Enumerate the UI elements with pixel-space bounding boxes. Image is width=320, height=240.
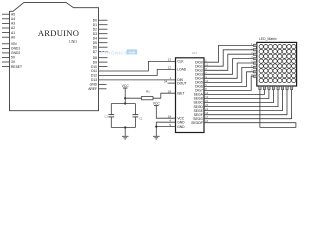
wire capacitor bottom rail [111,127,135,129]
svg-text:AREF: AREF [88,87,97,91]
svg-text:R1: R1 [146,89,150,93]
svg-text:D8: D8 [93,56,97,60]
Arduino pin A3 [2,22,10,24]
svg-text:VIN: VIN [11,42,17,46]
node junction GND pins [155,126,157,128]
wire IC GND pin 9 [156,126,175,128]
Arduino pin A4 [2,18,10,20]
Arduino pin GND2 [2,52,10,54]
LED_Matrix column pin pad 2 [263,86,265,89]
wire IC1 DIG2 to LED_Matrix row pin 3 [204,54,253,70]
Arduino pin D8 [99,57,108,59]
node junction VCC/R1 [124,97,126,99]
LED_Matrix row pin pad 2 [253,49,256,51]
LED_Matrix column pin pad 5 [277,86,279,89]
svg-text:GND: GND [90,83,98,87]
wire IC1 DIG4 to LED_Matrix row pin 5 [204,63,253,78]
LED_Matrix column pin pad 7 [286,86,288,89]
svg-text:D3: D3 [93,32,97,36]
svg-text:12: 12 [168,66,172,70]
LED_Matrix row pin pad 6 [253,66,256,68]
svg-text:D10: D10 [91,65,97,69]
svg-text:24: 24 [164,80,168,84]
wire capacitor top rail [111,103,135,105]
wire D11 to IC CLK pin 13 [99,61,176,71]
wire IC1 DIG5 to LED_Matrix row pin 6 [204,67,253,82]
Arduino pin AREF [99,88,107,90]
Arduino pin D1 [99,24,108,26]
Arduino pin D2 [99,28,108,30]
Arduino pin D4 [99,37,108,39]
svg-text:CLK: CLK [177,60,184,64]
Arduino pin 5V [2,57,10,59]
Arduino pin A5 [2,13,10,15]
wire IC1 DIG1 to LED_Matrix row pin 2 [204,50,253,66]
wire IC GND pin 4 [156,122,175,136]
svg-text:13: 13 [168,58,172,62]
svg-text:A4: A4 [11,17,15,21]
ground symbol (capacitors) [124,128,126,137]
Arduino pin A2 [2,27,10,29]
svg-text:VCC: VCC [122,84,130,88]
wire IC1 SEGF to LED_Matrix column pin 7 [204,89,287,114]
Arduino UNO board outline [10,2,99,110]
wire D12 to IC LOAD pin 12 [99,69,176,75]
Arduino pin A1 [2,32,10,34]
LED_Matrix row pin pad 4 [253,58,256,60]
capacitor C2 [134,104,136,115]
Arduino pin 3V [2,61,10,63]
wire VCC to R1 [125,97,141,99]
svg-text:LED_Matrix: LED_Matrix [259,37,277,41]
wire IC1 DIG0 to LED_Matrix row pin 1 [204,45,253,62]
wire IC1 SEGA to LED_Matrix column pin 2 [204,89,264,94]
wire VCC to IC pin 19 [156,106,175,119]
svg-text:SEGDP: SEGDP [191,121,203,125]
svg-text:ISET: ISET [177,91,184,95]
op IC1 MAX7219 body [176,58,205,133]
svg-text:D4: D4 [93,36,97,40]
Arduino pin GND1 [2,47,10,49]
resistor R1 [142,97,154,100]
wire IC1 SEGB to LED_Matrix column pin 3 [204,89,269,98]
Arduino pin D5 [99,42,108,44]
wire IC1 SEGE to LED_Matrix column pin 6 [204,89,283,110]
wire R1 to IC ISET pin 18 [153,93,176,98]
svg-text:CTRONICS: CTRONICS [100,51,128,57]
node junction capacitor rail bottom [124,126,126,128]
svg-text:A2: A2 [11,26,15,30]
svg-text:D0: D0 [93,18,97,22]
LED matrix LED_Matrix body [257,42,297,86]
svg-text:RESET: RESET [11,65,22,69]
Arduino pin VIN [2,43,10,45]
svg-text:D2: D2 [93,27,97,31]
capacitor C1 [110,104,112,115]
svg-text:VCC: VCC [153,102,161,106]
svg-text:LOAD: LOAD [177,68,187,72]
svg-text:D5: D5 [93,41,97,45]
svg-text:D11: D11 [91,69,97,73]
Arduino pin RESET [2,66,10,68]
wire IC1 SEGC to LED_Matrix column pin 4 [204,89,274,102]
wire IC1 SEGG to LED_Matrix column pin 8 [204,89,292,118]
LED_Matrix row pin pad 7 [253,71,256,73]
svg-text:HUB: HUB [128,50,135,54]
svg-text:GND: GND [177,120,185,124]
LED_Matrix column pin pad 1 [259,86,261,89]
LED_Matrix column pin pad 4 [272,86,274,89]
watermark hub icon [127,49,138,54]
svg-text:D1: D1 [93,23,97,27]
svg-text:UNO: UNO [69,40,77,44]
svg-text:D7: D7 [93,50,97,54]
svg-text:GND1: GND1 [11,47,20,51]
svg-text:D9: D9 [93,60,97,64]
svg-text:D12: D12 [91,74,97,78]
svg-text:D6: D6 [93,45,97,49]
svg-text:GND: GND [177,125,185,129]
Arduino pin D3 [99,33,108,35]
svg-text:C1: C1 [105,115,109,119]
LED_Matrix row pin pad 3 [253,53,256,55]
svg-text:GND2: GND2 [11,51,20,55]
svg-text:D13: D13 [91,78,97,82]
wire IC1 DIG7 to LED_Matrix row pin 8 [204,76,253,90]
LED matrix 8x8 LEDs [259,44,296,82]
Arduino pin D0 [99,19,108,21]
svg-text:ARDUINO: ARDUINO [38,28,79,38]
wire D13 to IC DIN pin 1 [99,79,176,81]
ground symbol (IC) [153,135,160,137]
wire IC1 SEGDP to LED_Matrix column pin 1 [204,89,296,127]
LED_Matrix column pin pad 3 [268,86,270,89]
Arduino pin GND [99,83,107,85]
LED_Matrix row pin pad 8 [253,75,256,77]
svg-text:A0: A0 [11,35,15,39]
node junction capacitor rail top [124,102,126,104]
LED_Matrix column pin pad 8 [291,86,293,89]
IC1 pin 24 DOUT stub [168,82,176,84]
Arduino pin D7 [99,51,108,53]
LED_Matrix column pin pad 6 [281,86,283,89]
LED_Matrix row pin pad 5 [253,62,256,64]
wire IC1 SEGD to LED_Matrix column pin 5 [204,89,278,106]
svg-text:C2: C2 [139,116,143,120]
LED_Matrix row pin pad 1 [253,44,256,46]
svg-text:A5: A5 [11,12,15,16]
svg-text:DOUT: DOUT [177,81,186,85]
svg-text:IC1: IC1 [192,51,197,55]
svg-text:A3: A3 [11,22,15,26]
svg-text:A1: A1 [11,31,15,35]
Arduino pin A0 [2,36,10,38]
wire IC1 DIG6 to LED_Matrix row pin 7 [204,72,253,87]
wire IC1 DIG3 to LED_Matrix row pin 4 [204,59,253,75]
Arduino pin D9 [99,61,108,63]
Arduino pin D6 [99,46,108,48]
Arduino pin D10 [99,66,108,68]
